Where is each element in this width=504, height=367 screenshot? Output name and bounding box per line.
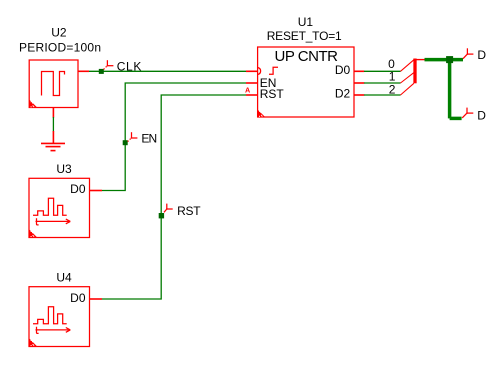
ground: [41, 131, 65, 151]
svg-text:D2: D2: [335, 86, 351, 100]
thick wire bus to terminals (top run): [425, 58, 464, 62]
bus entry 2: [401, 83, 414, 95]
svg-text:2: 2: [389, 82, 396, 96]
svg-text:CLK: CLK: [117, 60, 142, 74]
svg-text:D0: D0: [70, 182, 86, 196]
junction CLK node: [99, 69, 104, 74]
pin stub D2: [354, 94, 364, 96]
wire CLK (U2 to U1): [89, 70, 246, 72]
wire D2: [364, 94, 401, 96]
terminal CLK: [104, 60, 114, 69]
pin stub D0: [354, 70, 364, 72]
thick wire vertical run: [448, 60, 452, 119]
junction EN node: [123, 140, 128, 145]
junction bus node: [446, 56, 453, 63]
counter U1: [258, 47, 354, 117]
U2 output pin stub: [78, 70, 89, 72]
wire RST (U4 to U1): [102, 95, 246, 299]
svg-text:RST: RST: [260, 87, 285, 101]
svg-text:U2: U2: [51, 25, 67, 39]
pin stub D1: [354, 82, 364, 84]
svg-text:RESET_TO=1: RESET_TO=1: [267, 29, 342, 43]
svg-text:EN: EN: [141, 132, 157, 146]
svg-text:D0: D0: [335, 63, 351, 77]
terminal EN: [128, 132, 138, 141]
digital source U3: [29, 178, 90, 237]
bus: [414, 59, 425, 84]
pin stub RST: [246, 94, 258, 96]
svg-text:PERIOD=100n: PERIOD=100n: [19, 40, 101, 54]
wire D0: [364, 70, 401, 72]
pin stub EN: [246, 82, 258, 84]
terminal RST: [164, 204, 173, 213]
pin stub CLK: [246, 70, 258, 72]
wire D1: [364, 82, 401, 84]
U3 output pin stub: [90, 190, 103, 192]
terminal D top: [463, 48, 473, 58]
svg-text:RST: RST: [177, 204, 201, 218]
svg-text:D0: D0: [70, 291, 86, 305]
thick wire bottom run: [450, 117, 462, 121]
svg-text:U1: U1: [298, 15, 314, 29]
U4 output pin stub: [90, 298, 103, 300]
svg-text:D: D: [477, 108, 486, 122]
svg-text:D: D: [477, 48, 486, 62]
svg-text:UP CNTR: UP CNTR: [275, 48, 339, 65]
svg-text:U4: U4: [56, 271, 72, 285]
wire U2 to ground: [52, 117, 54, 132]
digital source U4: [29, 287, 90, 347]
U2 ground pin stub: [52, 108, 54, 118]
bus entry 1: [401, 71, 417, 83]
junction RST node: [159, 213, 164, 218]
wire EN (U3 to U1): [102, 83, 246, 191]
svg-text:A: A: [245, 86, 250, 95]
terminal D bottom: [462, 108, 473, 118]
svg-text:U3: U3: [56, 162, 72, 176]
pulse source U2: [29, 60, 78, 108]
bus entry 0: [401, 60, 415, 72]
